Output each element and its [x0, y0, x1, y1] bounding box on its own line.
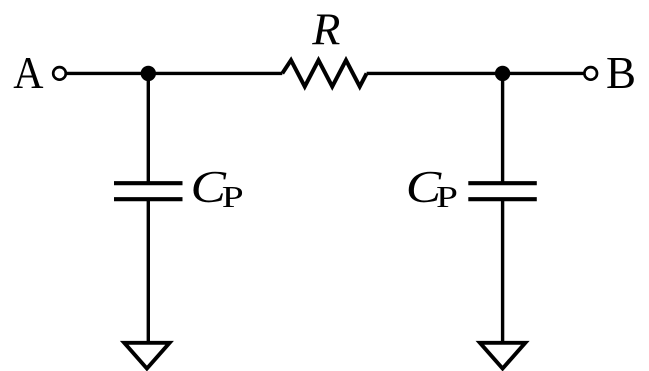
- junction node right: [495, 66, 510, 81]
- terminal A (open circle): [53, 67, 66, 80]
- value label C_P right: [406, 162, 443, 212]
- svg-text:P: P: [436, 179, 458, 214]
- ground symbol left: [124, 343, 169, 369]
- ground symbol right: [480, 343, 525, 369]
- wire A terminal to resistor: [66, 72, 282, 75]
- junction node left: [141, 66, 156, 81]
- capacitor C_P right, bottom plate: [468, 197, 537, 201]
- node A label: [13, 49, 44, 99]
- wire right capacitor to ground: [501, 199, 504, 341]
- svg-text:A: A: [13, 49, 44, 99]
- wire left junction down to capacitor: [147, 73, 150, 183]
- capacitor C_P left, top plate: [114, 181, 183, 185]
- svg-text:B: B: [606, 48, 636, 98]
- capacitor C_P left, bottom plate: [114, 197, 183, 201]
- resistor R (zigzag): [282, 60, 366, 86]
- wire resistor to B terminal: [367, 72, 585, 75]
- wire left capacitor to ground: [147, 199, 150, 341]
- terminal B (open circle): [584, 67, 597, 80]
- value label C_P left: [191, 162, 228, 212]
- svg-text:R: R: [311, 4, 340, 55]
- capacitor C_P right, top plate: [468, 181, 537, 185]
- svg-text:P: P: [222, 179, 244, 214]
- wire right junction down to capacitor: [501, 73, 504, 183]
